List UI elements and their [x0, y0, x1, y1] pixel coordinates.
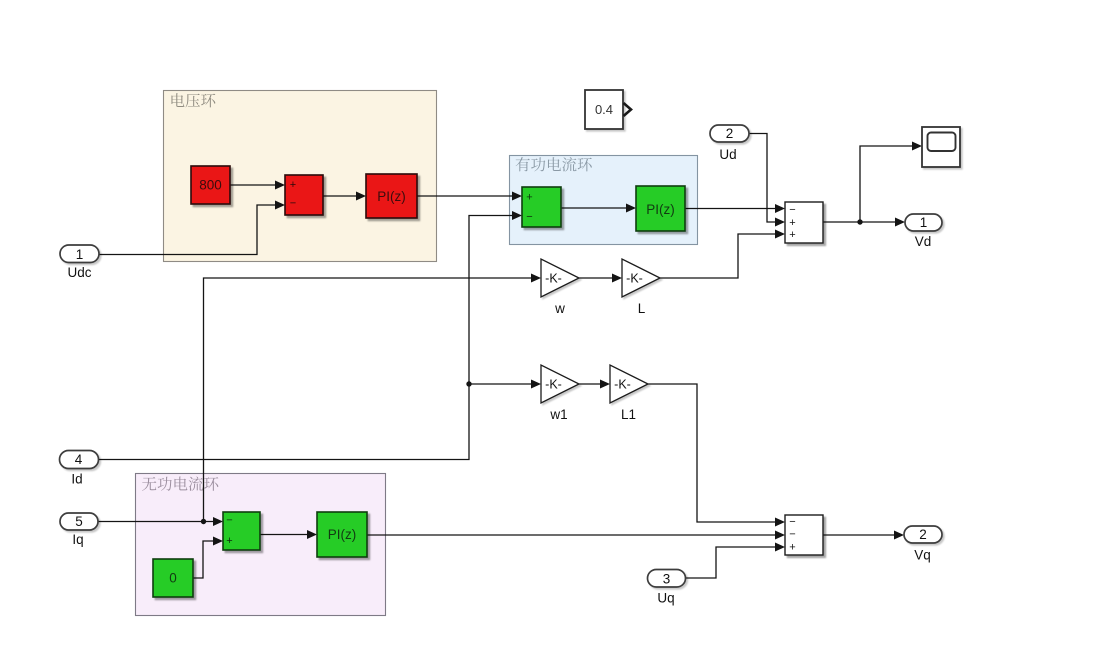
svg-text:−: − — [789, 529, 795, 541]
svg-text:-K-: -K- — [545, 272, 562, 286]
svg-text:0: 0 — [169, 571, 177, 586]
svg-text:Udc: Udc — [67, 265, 91, 280]
svg-text:PI(z): PI(z) — [377, 189, 406, 204]
svg-text:PI(z): PI(z) — [646, 202, 675, 217]
svg-text:3: 3 — [663, 572, 671, 587]
svg-text:−: − — [526, 211, 532, 223]
svg-text:+: + — [789, 229, 795, 241]
svg-text:PI(z): PI(z) — [328, 527, 357, 542]
svg-text:2: 2 — [919, 527, 927, 542]
svg-text:+: + — [526, 192, 532, 204]
svg-text:-K-: -K- — [614, 378, 631, 392]
svg-text:-K-: -K- — [545, 378, 562, 392]
svg-text:w: w — [554, 301, 565, 316]
svg-text:Uq: Uq — [657, 591, 674, 606]
svg-text:1: 1 — [920, 215, 928, 230]
svg-text:5: 5 — [75, 514, 83, 529]
svg-text:2: 2 — [726, 126, 734, 141]
svg-text:−: − — [789, 516, 795, 528]
svg-text:Vd: Vd — [915, 234, 932, 249]
svg-text:−: − — [789, 204, 795, 216]
svg-text:+: + — [226, 535, 232, 547]
svg-text:1: 1 — [76, 247, 84, 262]
svg-text:L1: L1 — [621, 407, 636, 422]
svg-text:800: 800 — [199, 178, 222, 193]
svg-text:4: 4 — [75, 452, 83, 467]
svg-text:−: − — [226, 515, 232, 527]
svg-text:Iq: Iq — [72, 532, 83, 547]
svg-text:Ud: Ud — [719, 147, 736, 162]
svg-text:-K-: -K- — [626, 272, 643, 286]
svg-text:0.4: 0.4 — [595, 102, 613, 117]
svg-text:Vq: Vq — [914, 548, 931, 563]
svg-text:+: + — [290, 179, 296, 191]
svg-text:+: + — [789, 542, 795, 554]
svg-text:Id: Id — [71, 472, 82, 487]
svg-text:w1: w1 — [549, 407, 567, 422]
svg-text:−: − — [290, 198, 296, 210]
svg-text:+: + — [789, 217, 795, 229]
svg-text:L: L — [638, 301, 646, 316]
